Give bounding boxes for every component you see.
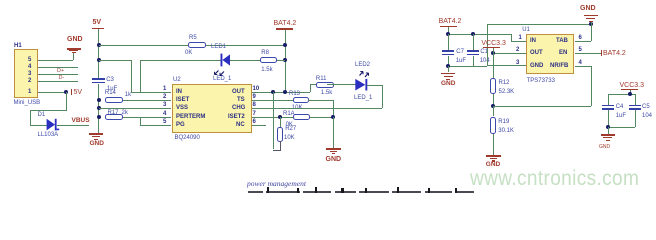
- resistor R27: [280, 117, 281, 127]
- LED LED2: [355, 62, 370, 68]
- resistor R17: [108, 110, 119, 116]
- resistor R14: [105, 90, 116, 96]
- op-amp U2 BQ24090: [173, 77, 181, 83]
- wire BAT stem: [448, 27, 449, 34]
- pin 8: [253, 102, 256, 108]
- junction: [491, 51, 495, 55]
- wire gnd top rail: [487, 24, 591, 25]
- wire PG tie: [140, 117, 141, 125]
- wire pin8 CHG: [252, 108, 383, 109]
- resistor R5: [189, 35, 197, 41]
- wire cap bottom rail: [608, 127, 635, 128]
- wire FB up: [591, 66, 592, 106]
- resistor R19: [493, 106, 494, 117]
- wire pin2: [38, 81, 79, 82]
- node 5V (top power port): [93, 19, 102, 26]
- capacitor C1: [473, 34, 474, 51]
- capacitor C4: [608, 94, 609, 105]
- wire R11 to LED2: [327, 84, 356, 85]
- wire pin6 NC stub: [252, 125, 266, 126]
- junction: [471, 32, 475, 36]
- wire to GND: [333, 117, 334, 148]
- wire R5 to BAT4.2 bus: [206, 45, 285, 46]
- wire R13 right: [308, 100, 334, 101]
- junction: [97, 115, 101, 119]
- wire pin10 OUT: [252, 92, 310, 93]
- resistor R13 body: [293, 97, 309, 103]
- pin 1: [163, 86, 166, 92]
- ground (below R13/R18): [326, 148, 341, 149]
- node VCC3.3 (at OUT): [481, 40, 506, 47]
- wire LED1 to R8: [230, 60, 261, 61]
- node D+: [57, 69, 64, 75]
- capacitor C2: [448, 34, 449, 51]
- wire bus below C3: [98, 84, 99, 134]
- connector H1: [14, 49, 38, 98]
- node VCC3.3 (output caps): [620, 82, 645, 89]
- wire pin1 IN: [131, 92, 171, 93]
- junction: [97, 98, 101, 102]
- wire pin1 IN: [511, 41, 526, 42]
- pin 9: [253, 94, 256, 100]
- wire 5V row to LED1: [99, 60, 132, 61]
- pin 6: [579, 35, 582, 41]
- capacitor C5: [635, 94, 636, 105]
- wire: [73, 52, 74, 60]
- wire pin3 GND: [487, 65, 526, 66]
- wire R14 to pin2: [123, 100, 171, 101]
- wire BAT row: [448, 34, 511, 35]
- ground (R19): [486, 155, 501, 156]
- wire pin3: [38, 74, 79, 75]
- wire R27 bottom: [280, 141, 281, 150]
- junction: [97, 58, 101, 62]
- wire R8 to bus: [277, 60, 284, 61]
- wire: [30, 110, 31, 125]
- wire pin6 TAB: [575, 41, 591, 42]
- ground (output caps): [608, 127, 609, 134]
- resistor R11: [316, 76, 327, 82]
- node BAT4.2 (left): [274, 20, 297, 27]
- wire cap top rail: [608, 94, 635, 95]
- node 5V (pin1 power port): [71, 89, 72, 95]
- pin 6: [253, 119, 256, 125]
- pin 10: [253, 86, 260, 92]
- junction: [283, 58, 287, 62]
- wire pin5 PG: [140, 125, 172, 126]
- junction: [283, 90, 287, 94]
- wire: [273, 150, 281, 151]
- resistor R13 label: [289, 91, 300, 97]
- wire: [131, 60, 132, 92]
- pin 3: [163, 102, 166, 108]
- wire step to pin1: [511, 34, 512, 41]
- wire R18 right: [310, 117, 334, 118]
- node BAT4.2 (EN port): [601, 50, 602, 56]
- wire R13 down: [333, 100, 334, 117]
- junction: [446, 32, 450, 36]
- wire R17 to pin4: [123, 117, 171, 118]
- junction: [97, 43, 101, 47]
- junction: [278, 115, 282, 119]
- junction: [446, 64, 450, 68]
- ground (caps): [448, 66, 449, 73]
- wire pin4: [38, 67, 79, 68]
- wire pin3 VSS: [99, 108, 172, 109]
- node BAT4.2 (right section): [439, 18, 462, 25]
- junction: [97, 106, 101, 110]
- wire FB row: [493, 106, 590, 107]
- wire pin1: [38, 92, 67, 93]
- wire LED2 right: [367, 85, 382, 86]
- op-amp U1 TPS73733: [522, 27, 530, 33]
- caption: power management: [247, 180, 306, 188]
- wire 5V to R5: [99, 45, 188, 46]
- pin 4: [579, 60, 582, 66]
- wire LED1 left: [140, 60, 221, 61]
- junction: [589, 22, 593, 26]
- LED LED1: [211, 44, 226, 50]
- wire pin4 NR/FB: [575, 66, 591, 67]
- wire: [30, 110, 67, 111]
- caption: clipped bottom title (only letter tops visible): [248, 191, 263, 193]
- junction: [628, 92, 632, 96]
- wire TAB up: [591, 24, 592, 41]
- pin 2: [163, 94, 166, 100]
- node D-: [59, 76, 65, 82]
- pin 5: [579, 47, 582, 53]
- junction: [283, 43, 287, 47]
- junction: [64, 90, 68, 94]
- ground GND (bottom of bus): [89, 133, 103, 134]
- junction: [271, 90, 275, 94]
- wire pin2 OUT: [493, 53, 526, 54]
- ground (top right): [580, 5, 596, 12]
- pin 2: [516, 47, 519, 53]
- wire D1 cathode to VBUS: [57, 125, 89, 126]
- wire pin7 ISET2: [252, 117, 294, 118]
- pin 7: [253, 111, 256, 117]
- node VBUS: [72, 118, 90, 125]
- junction: [331, 115, 335, 119]
- wire BAT4.2 bus: [285, 30, 286, 93]
- wire 5V stem: [98, 29, 99, 79]
- resistor R18: [283, 111, 295, 117]
- diode D1 LL103A: [38, 112, 46, 118]
- wire: [30, 125, 47, 126]
- wire pin5: [38, 60, 74, 61]
- wire R11 step: [310, 84, 311, 91]
- wire pin5 EN: [575, 53, 601, 54]
- junction: [491, 104, 495, 108]
- pin 3: [516, 60, 519, 66]
- wire cap ground rail: [448, 66, 487, 67]
- wire OUT down: [273, 92, 274, 150]
- pin 5: [163, 119, 166, 125]
- ground GND (top of H1): [67, 36, 83, 43]
- wire gnd loop up: [487, 24, 488, 66]
- wire pin9 TS: [252, 100, 294, 101]
- capacitor C3: [92, 78, 105, 80]
- resistor R12: [493, 53, 494, 78]
- pin 4: [163, 111, 166, 117]
- wire: [66, 92, 67, 111]
- junction: [606, 125, 610, 129]
- resistor R8: [261, 50, 269, 56]
- wire: [140, 60, 141, 92]
- pin 1: [519, 35, 522, 41]
- watermark www.cntronics.com: [470, 168, 639, 190]
- wire LED2 down to CHG: [382, 85, 383, 108]
